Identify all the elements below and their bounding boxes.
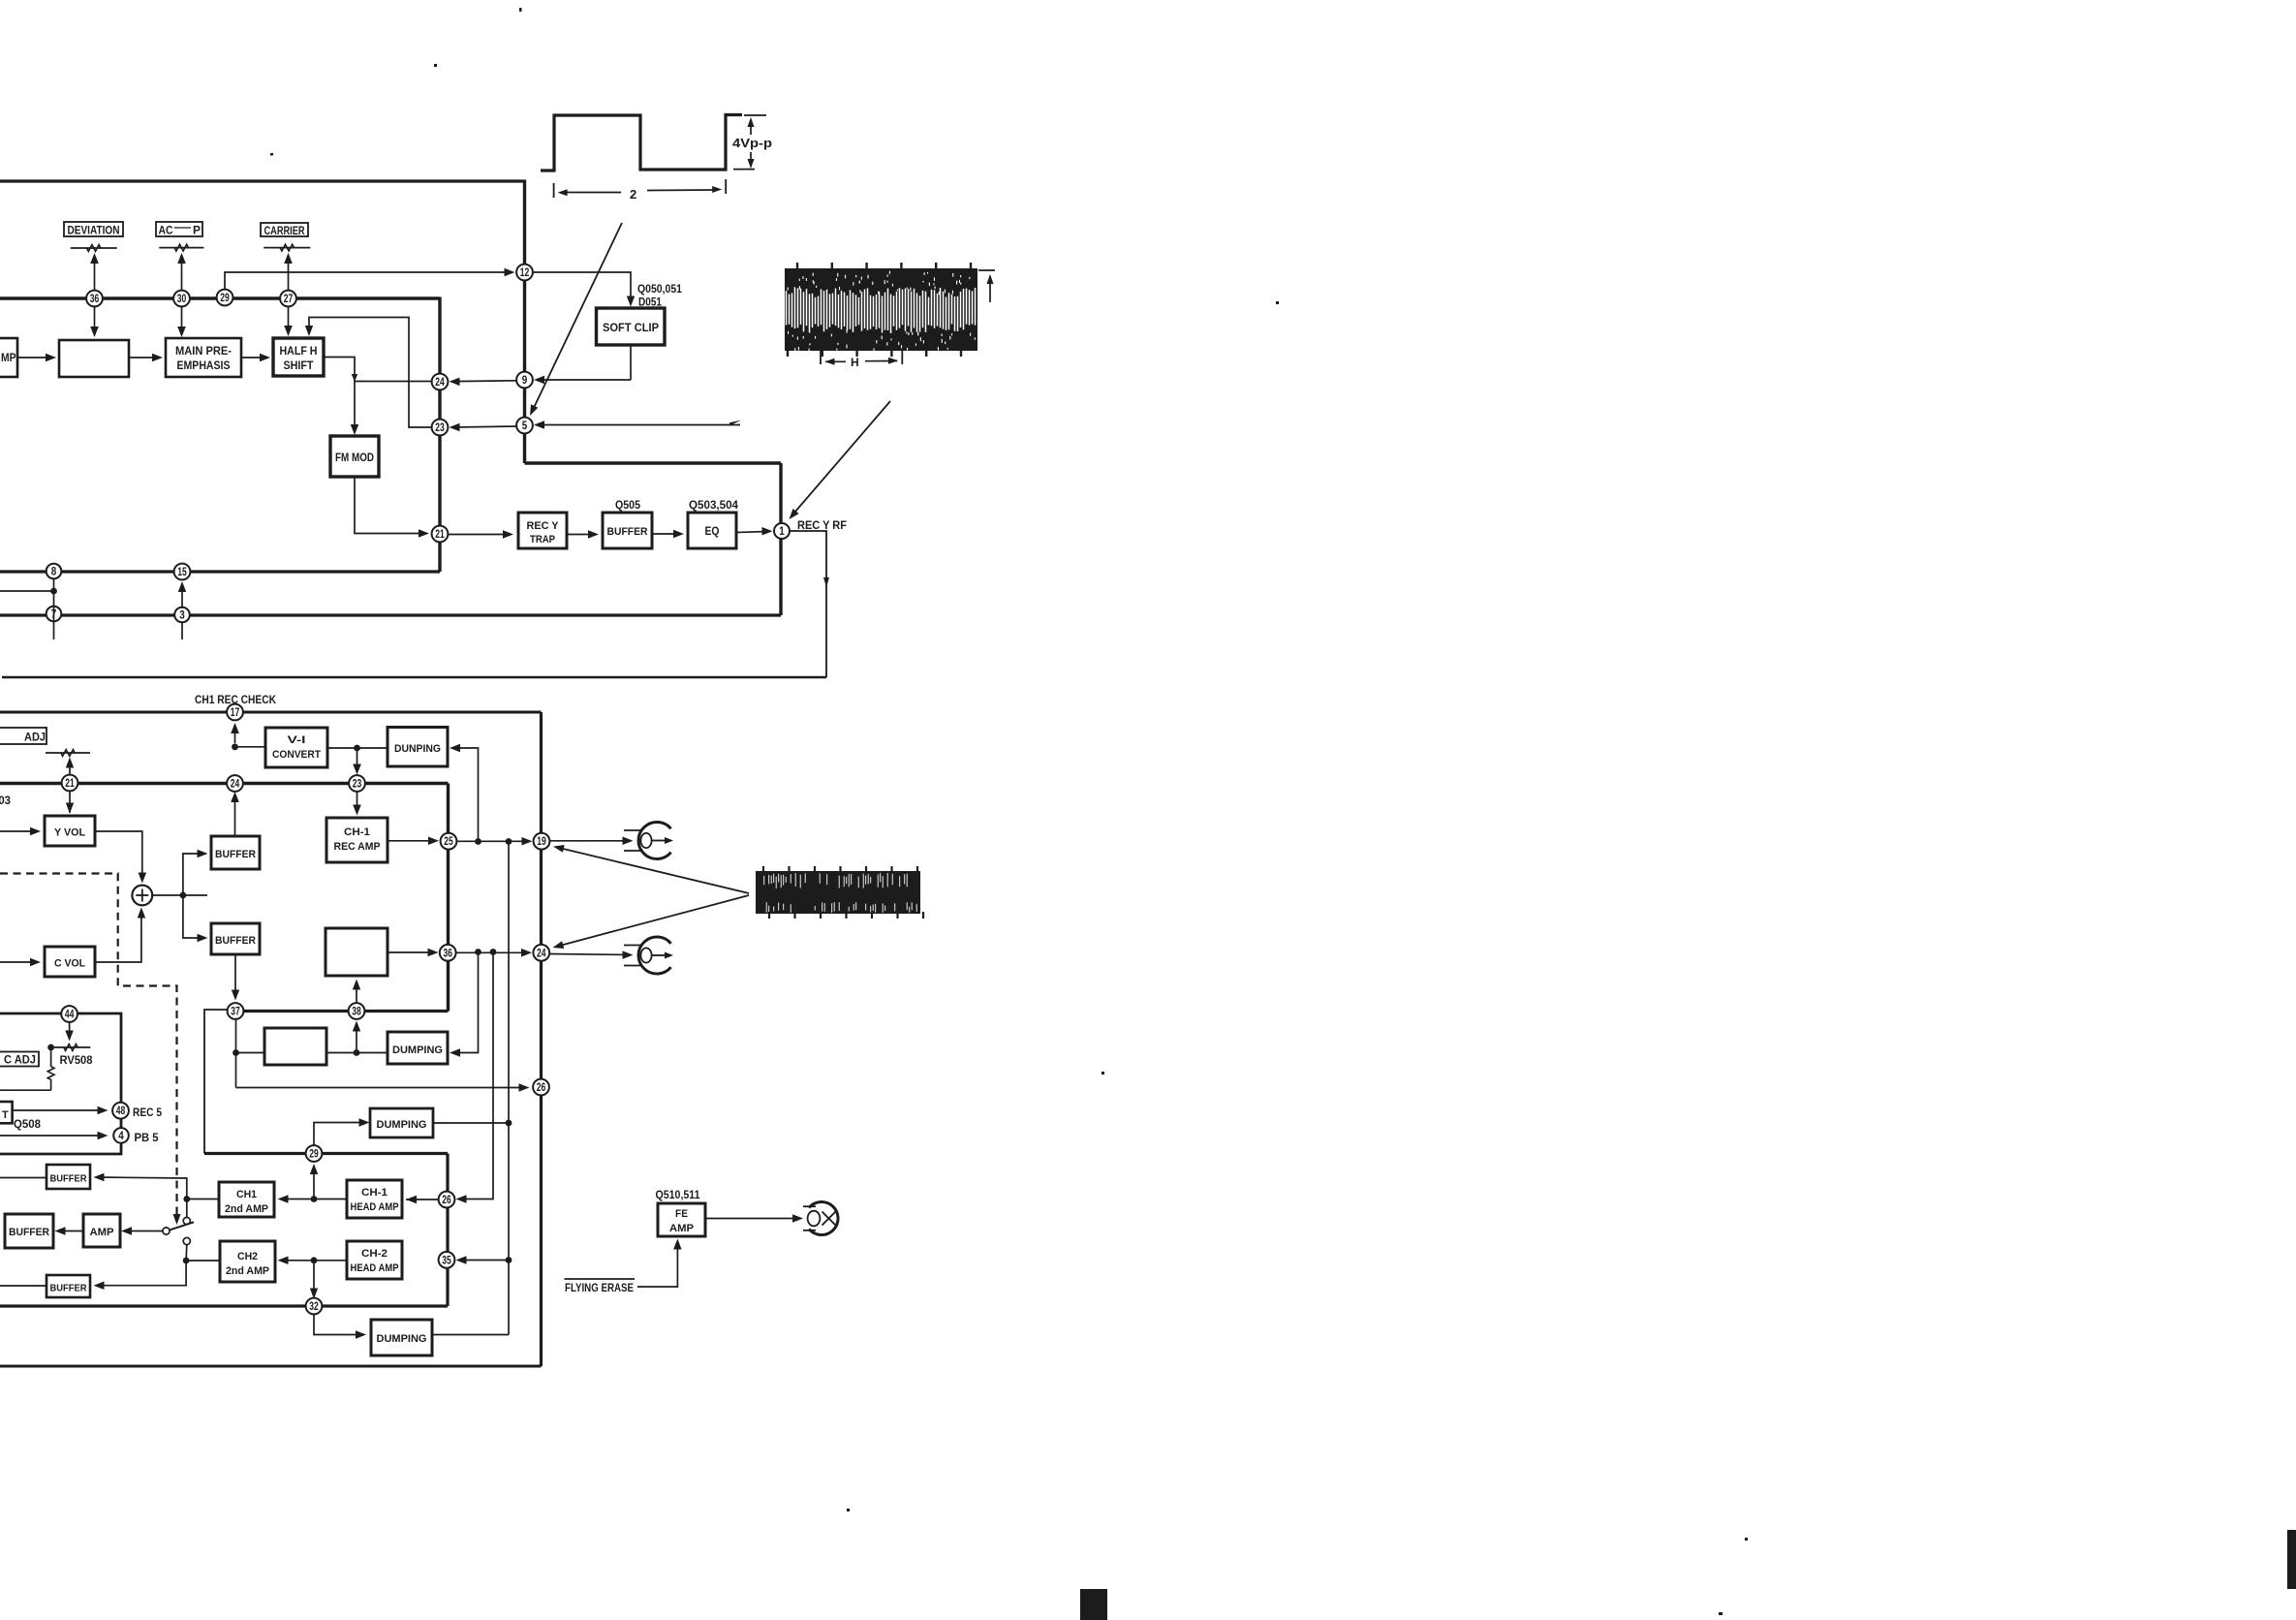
wire DUMPING 4 output bbox=[432, 1334, 509, 1336]
wire FE AMP to erase head bbox=[705, 1218, 799, 1220]
wire 29 row bbox=[204, 1152, 448, 1155]
pin 17 bbox=[227, 704, 243, 721]
block DUMPING 4 bbox=[371, 1320, 432, 1355]
wire to BUFFER 5 bbox=[96, 1261, 186, 1286]
top bus wire pins 36 30 29 27 bbox=[0, 296, 440, 299]
block CH1 2nd AMP bbox=[219, 1182, 274, 1217]
wire pin 12 to SOFT CLIP bbox=[533, 272, 631, 303]
wire 9 to 24 bbox=[452, 380, 516, 383]
block HALF H SHIFT bbox=[273, 338, 324, 376]
block CH-1 HEAD AMP bbox=[347, 1180, 402, 1218]
wire 35 feed bbox=[459, 1260, 509, 1262]
label box REC C ADJ bbox=[0, 1052, 39, 1067]
block FE AMP bbox=[658, 1203, 705, 1236]
junction bbox=[506, 1120, 512, 1127]
svg-text:BUFFER: BUFFER bbox=[50, 1173, 87, 1185]
junction bbox=[506, 1257, 512, 1263]
block SOFT CLIP bbox=[597, 308, 666, 345]
wire BUFFER 5 output bbox=[0, 1285, 47, 1287]
video head CH-1 bbox=[638, 823, 671, 859]
pin 44 bbox=[61, 1006, 78, 1022]
svg-text:AC: AC bbox=[159, 226, 173, 237]
wire 44 to RV508 bbox=[69, 1022, 71, 1038]
svg-text:CONVERT: CONVERT bbox=[272, 749, 321, 761]
pin 3 bbox=[174, 607, 190, 623]
wire into pin 5 bbox=[538, 424, 741, 426]
switch blade bbox=[170, 1222, 194, 1230]
svg-text:RV508: RV508 bbox=[60, 1055, 94, 1067]
wire FLYING ERASE to FE AMP bbox=[637, 1242, 677, 1288]
junction bbox=[475, 949, 481, 955]
svg-text:24: 24 bbox=[537, 948, 546, 959]
svg-text:Q503,504: Q503,504 bbox=[689, 500, 739, 512]
block BUFFER 5 bbox=[47, 1275, 90, 1297]
noise waveform photo 2 bbox=[756, 871, 920, 914]
block AMP bbox=[83, 1214, 120, 1247]
svg-text:EMPHASIS: EMPHASIS bbox=[177, 360, 231, 372]
resistor to ground path bbox=[50, 1047, 52, 1067]
dashed control path bbox=[0, 874, 177, 1220]
scan speck bbox=[1276, 301, 1279, 304]
pin 24 bbox=[432, 374, 449, 390]
svg-text:V-I: V-I bbox=[288, 734, 306, 746]
label box AC P bbox=[156, 222, 202, 236]
block BUFFER Q505 bbox=[603, 513, 652, 548]
svg-text:23: 23 bbox=[435, 422, 445, 434]
svg-text:REC Y: REC Y bbox=[527, 520, 560, 532]
wire junction down to 32 bbox=[313, 1261, 315, 1295]
wire mid box to pin 36 bbox=[388, 951, 435, 953]
wire junction to box bbox=[236, 1052, 265, 1054]
dimension 2 arrows bbox=[562, 192, 621, 194]
block C VOL bbox=[45, 947, 95, 977]
pin 25 bbox=[441, 833, 457, 850]
noise waveform photo 1 bbox=[785, 268, 977, 351]
block CH-2 HEAD AMP bbox=[347, 1241, 402, 1279]
scan speck bbox=[434, 64, 437, 67]
pin 24 lower bbox=[227, 775, 243, 792]
block Y VOL bbox=[45, 816, 95, 846]
svg-text:BUFFER: BUFFER bbox=[607, 526, 648, 538]
svg-text:5: 5 bbox=[522, 421, 528, 432]
wire C VOL to summer bbox=[95, 911, 141, 962]
pin 1 bbox=[774, 523, 790, 539]
wire MP to box bbox=[17, 357, 52, 358]
scan speck bbox=[1719, 1612, 1722, 1615]
svg-text:26: 26 bbox=[537, 1082, 546, 1094]
svg-text:H: H bbox=[851, 356, 859, 369]
wire junction down to pin 23 bbox=[357, 748, 358, 771]
wire pin 23 to CH-1 REC AMP bbox=[357, 792, 358, 812]
svg-text:SOFT CLIP: SOFT CLIP bbox=[603, 323, 659, 334]
damping rail vertical bbox=[508, 842, 510, 1335]
svg-text:2nd AMP: 2nd AMP bbox=[226, 1265, 269, 1277]
wire 8 to 7 stub bbox=[53, 579, 55, 640]
wire to EQ bbox=[652, 533, 680, 535]
wire jog right bbox=[525, 461, 782, 464]
svg-text:21: 21 bbox=[435, 529, 445, 541]
pin 21 bbox=[432, 526, 449, 543]
block MAIN PRE-EMPHASIS bbox=[166, 338, 241, 377]
wire to BUFFER lower bbox=[183, 895, 204, 938]
scan artifact bar bbox=[1080, 1589, 1107, 1620]
wire pot to pin 30 bbox=[181, 255, 183, 334]
svg-text:FE: FE bbox=[675, 1208, 688, 1220]
svg-text:DUMPING: DUMPING bbox=[392, 1044, 443, 1056]
wire row pins 8 15 bbox=[0, 570, 440, 573]
pin 26 inner bbox=[439, 1192, 455, 1208]
wire contact to CH2 line bbox=[185, 1245, 188, 1261]
wire CH-1 REC AMP to pin 25 bbox=[388, 840, 435, 842]
wire box to MAIN PRE-EMPHASIS bbox=[129, 357, 159, 358]
svg-text:DUMPING: DUMPING bbox=[377, 1119, 427, 1131]
wire pin 25 to pin 19 bbox=[457, 840, 531, 842]
junction bbox=[233, 1049, 239, 1056]
wire FM MOD to pin 21 bbox=[355, 477, 425, 534]
block DUMPING 3 bbox=[370, 1108, 433, 1137]
wire into junction bbox=[0, 590, 54, 592]
junction bbox=[475, 838, 481, 845]
wire to pin 48 bbox=[13, 1109, 105, 1111]
wire junction to pin 17 bbox=[234, 726, 236, 743]
pin 29 bbox=[217, 290, 233, 306]
svg-text:MP: MP bbox=[1, 351, 16, 364]
block FM MOD bbox=[330, 436, 379, 477]
noise waveform callout to pin 1 bbox=[792, 401, 891, 515]
wire CH-1 HEAD AMP to CH1 2nd AMP bbox=[314, 1199, 347, 1200]
block BUFFER 4 bbox=[5, 1214, 53, 1248]
wire BUFFER to pin 24 bbox=[234, 794, 236, 836]
svg-text:CH1: CH1 bbox=[236, 1189, 257, 1200]
wire V-I to DUNPING bbox=[327, 747, 388, 749]
amplifier MP box bbox=[0, 338, 17, 377]
svg-text:TRAP: TRAP bbox=[530, 534, 555, 545]
pin 7 bbox=[47, 607, 62, 622]
potentiometer AC P bbox=[159, 247, 203, 249]
block BUFFER 3 bbox=[47, 1165, 90, 1189]
svg-text:BUFFER: BUFFER bbox=[215, 849, 256, 860]
svg-text:HALF H: HALF H bbox=[280, 346, 318, 358]
wire to BUFFER 3 bbox=[96, 1177, 187, 1199]
junction bbox=[311, 1257, 318, 1263]
pin 23 lower bbox=[349, 775, 365, 792]
svg-text:ADJ: ADJ bbox=[24, 732, 46, 744]
svg-text:FLYING ERASE: FLYING ERASE bbox=[565, 1283, 634, 1294]
svg-text:48: 48 bbox=[116, 1106, 126, 1117]
svg-text:4: 4 bbox=[118, 1131, 124, 1142]
block CH-1 REC AMP bbox=[326, 818, 388, 862]
junction bbox=[232, 743, 238, 750]
block BUFFER 2 bbox=[211, 923, 260, 954]
svg-text:HEAD AMP: HEAD AMP bbox=[351, 1262, 399, 1274]
block unnamed mid bbox=[326, 928, 388, 976]
svg-text:15: 15 bbox=[177, 567, 187, 578]
wire pin 24 to head bbox=[549, 954, 630, 955]
svg-text:29: 29 bbox=[220, 293, 230, 304]
svg-text:37: 37 bbox=[231, 1007, 240, 1018]
block V-I CONVERT bbox=[265, 728, 327, 767]
svg-text:DUMPING: DUMPING bbox=[377, 1333, 427, 1345]
wire Y VOL to summer bbox=[95, 831, 142, 880]
band top level mark bbox=[978, 269, 995, 271]
svg-text:36: 36 bbox=[443, 948, 452, 959]
wire pin 21 to REC Y TRAP bbox=[449, 534, 511, 536]
svg-text:Y VOL: Y VOL bbox=[54, 827, 85, 839]
wire into C VOL bbox=[0, 961, 37, 963]
wire to BUFFER Q505 bbox=[567, 534, 595, 536]
wire 26 to CH-1 HEAD AMP bbox=[406, 1199, 439, 1200]
wire pin 19 to head bbox=[550, 840, 631, 842]
svg-text:25: 25 bbox=[444, 836, 453, 848]
wire 5 to 23 bbox=[452, 426, 516, 427]
wire BUFFER to pin 37 bbox=[234, 954, 236, 997]
junction bbox=[354, 1049, 360, 1056]
svg-text:30: 30 bbox=[177, 294, 187, 305]
svg-text:CARRIER: CARRIER bbox=[264, 226, 306, 237]
svg-text:23: 23 bbox=[353, 779, 362, 791]
block DUMPING 2 bbox=[388, 1032, 448, 1064]
wire junction up to 29 bbox=[313, 1167, 315, 1199]
wire pin 36 to pin 24 bbox=[456, 951, 530, 953]
svg-text:SHIFT: SHIFT bbox=[284, 360, 314, 372]
wire CH-2 HEAD AMP to CH2 2nd AMP bbox=[280, 1260, 347, 1262]
dimension 2 ticks bbox=[553, 183, 555, 198]
svg-text:CH-1: CH-1 bbox=[361, 1187, 388, 1199]
wire junction to V-I CONVERT bbox=[235, 746, 266, 748]
pin 27 bbox=[280, 291, 296, 307]
wire 23 feedback to HALF H SHIFT bbox=[309, 318, 432, 428]
svg-text:8: 8 bbox=[51, 567, 57, 578]
pin 12 bbox=[516, 265, 533, 281]
svg-text:4Vp-p: 4Vp-p bbox=[732, 137, 772, 150]
potentiometer DEVIATION bbox=[71, 247, 117, 249]
pin 21 lower bbox=[62, 775, 78, 792]
svg-text:19: 19 bbox=[537, 836, 546, 848]
svg-text:C ADJ: C ADJ bbox=[4, 1055, 36, 1067]
junction bbox=[490, 949, 497, 955]
svg-text:3: 3 bbox=[179, 610, 185, 622]
wire down to pin 1 bbox=[779, 463, 782, 615]
wire 37 branch down bbox=[235, 1019, 237, 1088]
block DUNPING bbox=[388, 728, 448, 767]
pin 26 edge bbox=[533, 1079, 549, 1096]
svg-text:DUNPING: DUNPING bbox=[394, 743, 441, 755]
svg-text:24: 24 bbox=[435, 377, 445, 389]
pin 24 right bbox=[533, 945, 549, 961]
wire BUFFER 3 output bbox=[0, 1177, 47, 1179]
IC bottom edge wire pins 7 3 bbox=[0, 613, 781, 616]
4Vp-p dimension arrows bbox=[750, 120, 752, 135]
noise waveform callout to pin 24 bbox=[556, 895, 749, 947]
wire rail to pin 26 inner bbox=[459, 952, 493, 1199]
wire junction up to pin 38 bbox=[356, 1024, 357, 1053]
wire common to AMP bbox=[125, 1231, 164, 1232]
svg-text:BUFFER: BUFFER bbox=[50, 1283, 87, 1294]
potentiometer RV508 bbox=[51, 1046, 91, 1048]
wire to pin 26 edge bbox=[236, 1087, 528, 1089]
junction bbox=[183, 1196, 190, 1202]
pin 8 bbox=[47, 564, 62, 579]
wire 3 to 15 bbox=[181, 584, 183, 607]
svg-text:FM MOD: FM MOD bbox=[335, 452, 374, 464]
pin 35 inner bbox=[439, 1252, 455, 1268]
svg-text:BUFFER: BUFFER bbox=[9, 1227, 49, 1238]
block CH2 2nd AMP bbox=[220, 1241, 275, 1282]
wire 32 to DUMPING 4 bbox=[314, 1314, 363, 1335]
scan speck bbox=[1745, 1538, 1748, 1541]
svg-text:24: 24 bbox=[231, 779, 240, 791]
svg-text:REC 5: REC 5 bbox=[133, 1107, 163, 1119]
4Vp-p dimension ticks bbox=[744, 114, 766, 116]
wire CH1 2nd AMP output bbox=[187, 1199, 219, 1200]
svg-text:17: 17 bbox=[231, 707, 240, 719]
wire to BUFFER upper bbox=[183, 854, 204, 895]
switch contact lower bbox=[183, 1237, 190, 1244]
pin 9 bbox=[516, 372, 533, 389]
svg-text:AMP: AMP bbox=[90, 1227, 114, 1238]
svg-text:CH-2: CH-2 bbox=[361, 1248, 388, 1260]
wire pot to pin 27 bbox=[288, 255, 290, 334]
switch contact upper bbox=[183, 1217, 190, 1224]
IC right edge wire bbox=[523, 180, 526, 464]
wire 29 to DUMPING 3 bbox=[314, 1123, 366, 1146]
wire stub below 3 bbox=[181, 623, 183, 640]
svg-text:12: 12 bbox=[520, 267, 530, 279]
block Q508 partial bbox=[0, 1102, 13, 1123]
svg-text:C VOL: C VOL bbox=[54, 958, 85, 970]
wire 38 to mid box bbox=[356, 982, 357, 1004]
svg-text:2nd AMP: 2nd AMP bbox=[225, 1203, 268, 1215]
pulse waveform callout bbox=[541, 115, 742, 171]
erase head bbox=[809, 1202, 838, 1235]
svg-text:35: 35 bbox=[442, 1255, 451, 1266]
label box DEVIATION bbox=[64, 222, 123, 236]
summing junction bbox=[132, 886, 152, 906]
wire into Y VOL bbox=[0, 830, 37, 832]
svg-text:MAIN PRE-: MAIN PRE- bbox=[175, 346, 232, 358]
svg-text:1: 1 bbox=[779, 526, 785, 538]
svg-text:32: 32 bbox=[309, 1301, 319, 1313]
wire EQ to pin 1 bbox=[736, 532, 768, 533]
svg-text:CH2: CH2 bbox=[237, 1251, 258, 1262]
svg-text:38: 38 bbox=[352, 1007, 361, 1018]
wire REC Y RF bbox=[790, 531, 826, 677]
wire junction to pin 24 bbox=[355, 381, 432, 383]
svg-text:26: 26 bbox=[442, 1195, 451, 1206]
svg-text:AMP: AMP bbox=[669, 1223, 694, 1234]
callout line to pin 5 bbox=[533, 223, 623, 411]
wire bottom return bbox=[2, 676, 826, 679]
wire box to DUMPING 2 bbox=[326, 1052, 388, 1054]
wire pin 29 to pin 12 bbox=[225, 272, 512, 290]
video head CH-2 bbox=[638, 937, 671, 974]
pin 37 bbox=[228, 1003, 244, 1019]
pin 30 bbox=[173, 291, 190, 307]
svg-text:Q508: Q508 bbox=[14, 1119, 42, 1131]
svg-text:Q050,051: Q050,051 bbox=[637, 284, 683, 296]
bus corner down wire bbox=[447, 784, 450, 1012]
wire 37 to 29 L-path bbox=[204, 1010, 228, 1154]
wire 37 38 row bbox=[235, 1010, 449, 1012]
svg-text:BUFFER: BUFFER bbox=[215, 935, 256, 947]
wire damping rail to DUNPING bbox=[452, 748, 479, 842]
svg-text:HEAD AMP: HEAD AMP bbox=[351, 1201, 399, 1213]
potentiometer CARRIER bbox=[264, 247, 310, 249]
lower block top edge bbox=[0, 711, 542, 714]
junction bbox=[354, 745, 360, 752]
wire 29 column down bbox=[446, 1154, 449, 1307]
svg-text:EQ: EQ bbox=[705, 526, 720, 538]
junction bbox=[180, 892, 187, 899]
scan speck bbox=[1101, 1072, 1104, 1075]
pin 32 bbox=[306, 1298, 323, 1315]
pin 4 bbox=[113, 1128, 129, 1143]
scan speck bbox=[270, 153, 273, 156]
lower bus wire pins 21 24 23 bbox=[0, 782, 449, 785]
scan speck bbox=[847, 1509, 850, 1511]
svg-text:DEVIATION: DEVIATION bbox=[68, 226, 120, 237]
label box CARRIER bbox=[261, 223, 308, 236]
svg-text:PB 5: PB 5 bbox=[135, 1133, 160, 1144]
junction bbox=[506, 838, 512, 845]
block unnamed 2 bbox=[264, 1028, 326, 1065]
block EQ Q503,504 bbox=[688, 513, 736, 548]
wire to HALF H SHIFT bbox=[241, 357, 266, 358]
H dimension ticks bbox=[820, 349, 822, 364]
pin 36 lower bbox=[440, 945, 456, 961]
block REC Y TRAP bbox=[518, 513, 567, 548]
lower block bottom edge bbox=[0, 1365, 542, 1368]
svg-text:T: T bbox=[2, 1109, 9, 1121]
wire return row through 32 bbox=[0, 1304, 448, 1307]
wire CH2 2nd AMP output bbox=[186, 1260, 220, 1262]
noise waveform callout to pin 19 bbox=[557, 848, 749, 894]
svg-text:27: 27 bbox=[284, 294, 294, 305]
lower block right edge bbox=[540, 712, 543, 1366]
svg-text:Q505: Q505 bbox=[615, 500, 641, 512]
wire HALF H SHIFT output bbox=[324, 358, 355, 433]
wire AMP to BUFFER 4 bbox=[58, 1231, 83, 1232]
pin 19 bbox=[534, 833, 550, 850]
svg-text:P: P bbox=[193, 226, 201, 237]
wire damping rail 2 bbox=[452, 952, 479, 1053]
svg-text:44: 44 bbox=[65, 1010, 75, 1021]
wire DUMPING 3 output bbox=[433, 1122, 509, 1124]
wire pot to pin 36 bbox=[94, 256, 96, 334]
wire SOFT CLIP output bbox=[630, 345, 632, 380]
wire summer output bbox=[152, 894, 207, 896]
svg-text:CH-1: CH-1 bbox=[344, 826, 370, 838]
svg-text:21: 21 bbox=[65, 778, 75, 790]
wire to switch contact bbox=[186, 1199, 188, 1218]
sub-block outline bbox=[0, 1013, 121, 1154]
wire pot to Y VOL bbox=[69, 760, 71, 813]
unnamed box bbox=[59, 340, 129, 377]
scan artifact edge bar bbox=[2287, 1530, 2296, 1589]
svg-text:9: 9 bbox=[522, 375, 528, 387]
IC top edge wire bbox=[0, 179, 525, 182]
pin 36 bbox=[86, 291, 103, 307]
pin 38 bbox=[349, 1003, 365, 1019]
inner column wire pins 24 23 21 bbox=[438, 297, 441, 573]
svg-text:2: 2 bbox=[630, 187, 636, 202]
junction bbox=[311, 1196, 318, 1202]
junction bbox=[50, 588, 57, 595]
pin 29 bbox=[306, 1145, 323, 1162]
svg-text:REC AMP: REC AMP bbox=[334, 841, 381, 853]
svg-text:Q510,511: Q510,511 bbox=[656, 1190, 701, 1201]
label box ADJ bbox=[0, 728, 47, 744]
